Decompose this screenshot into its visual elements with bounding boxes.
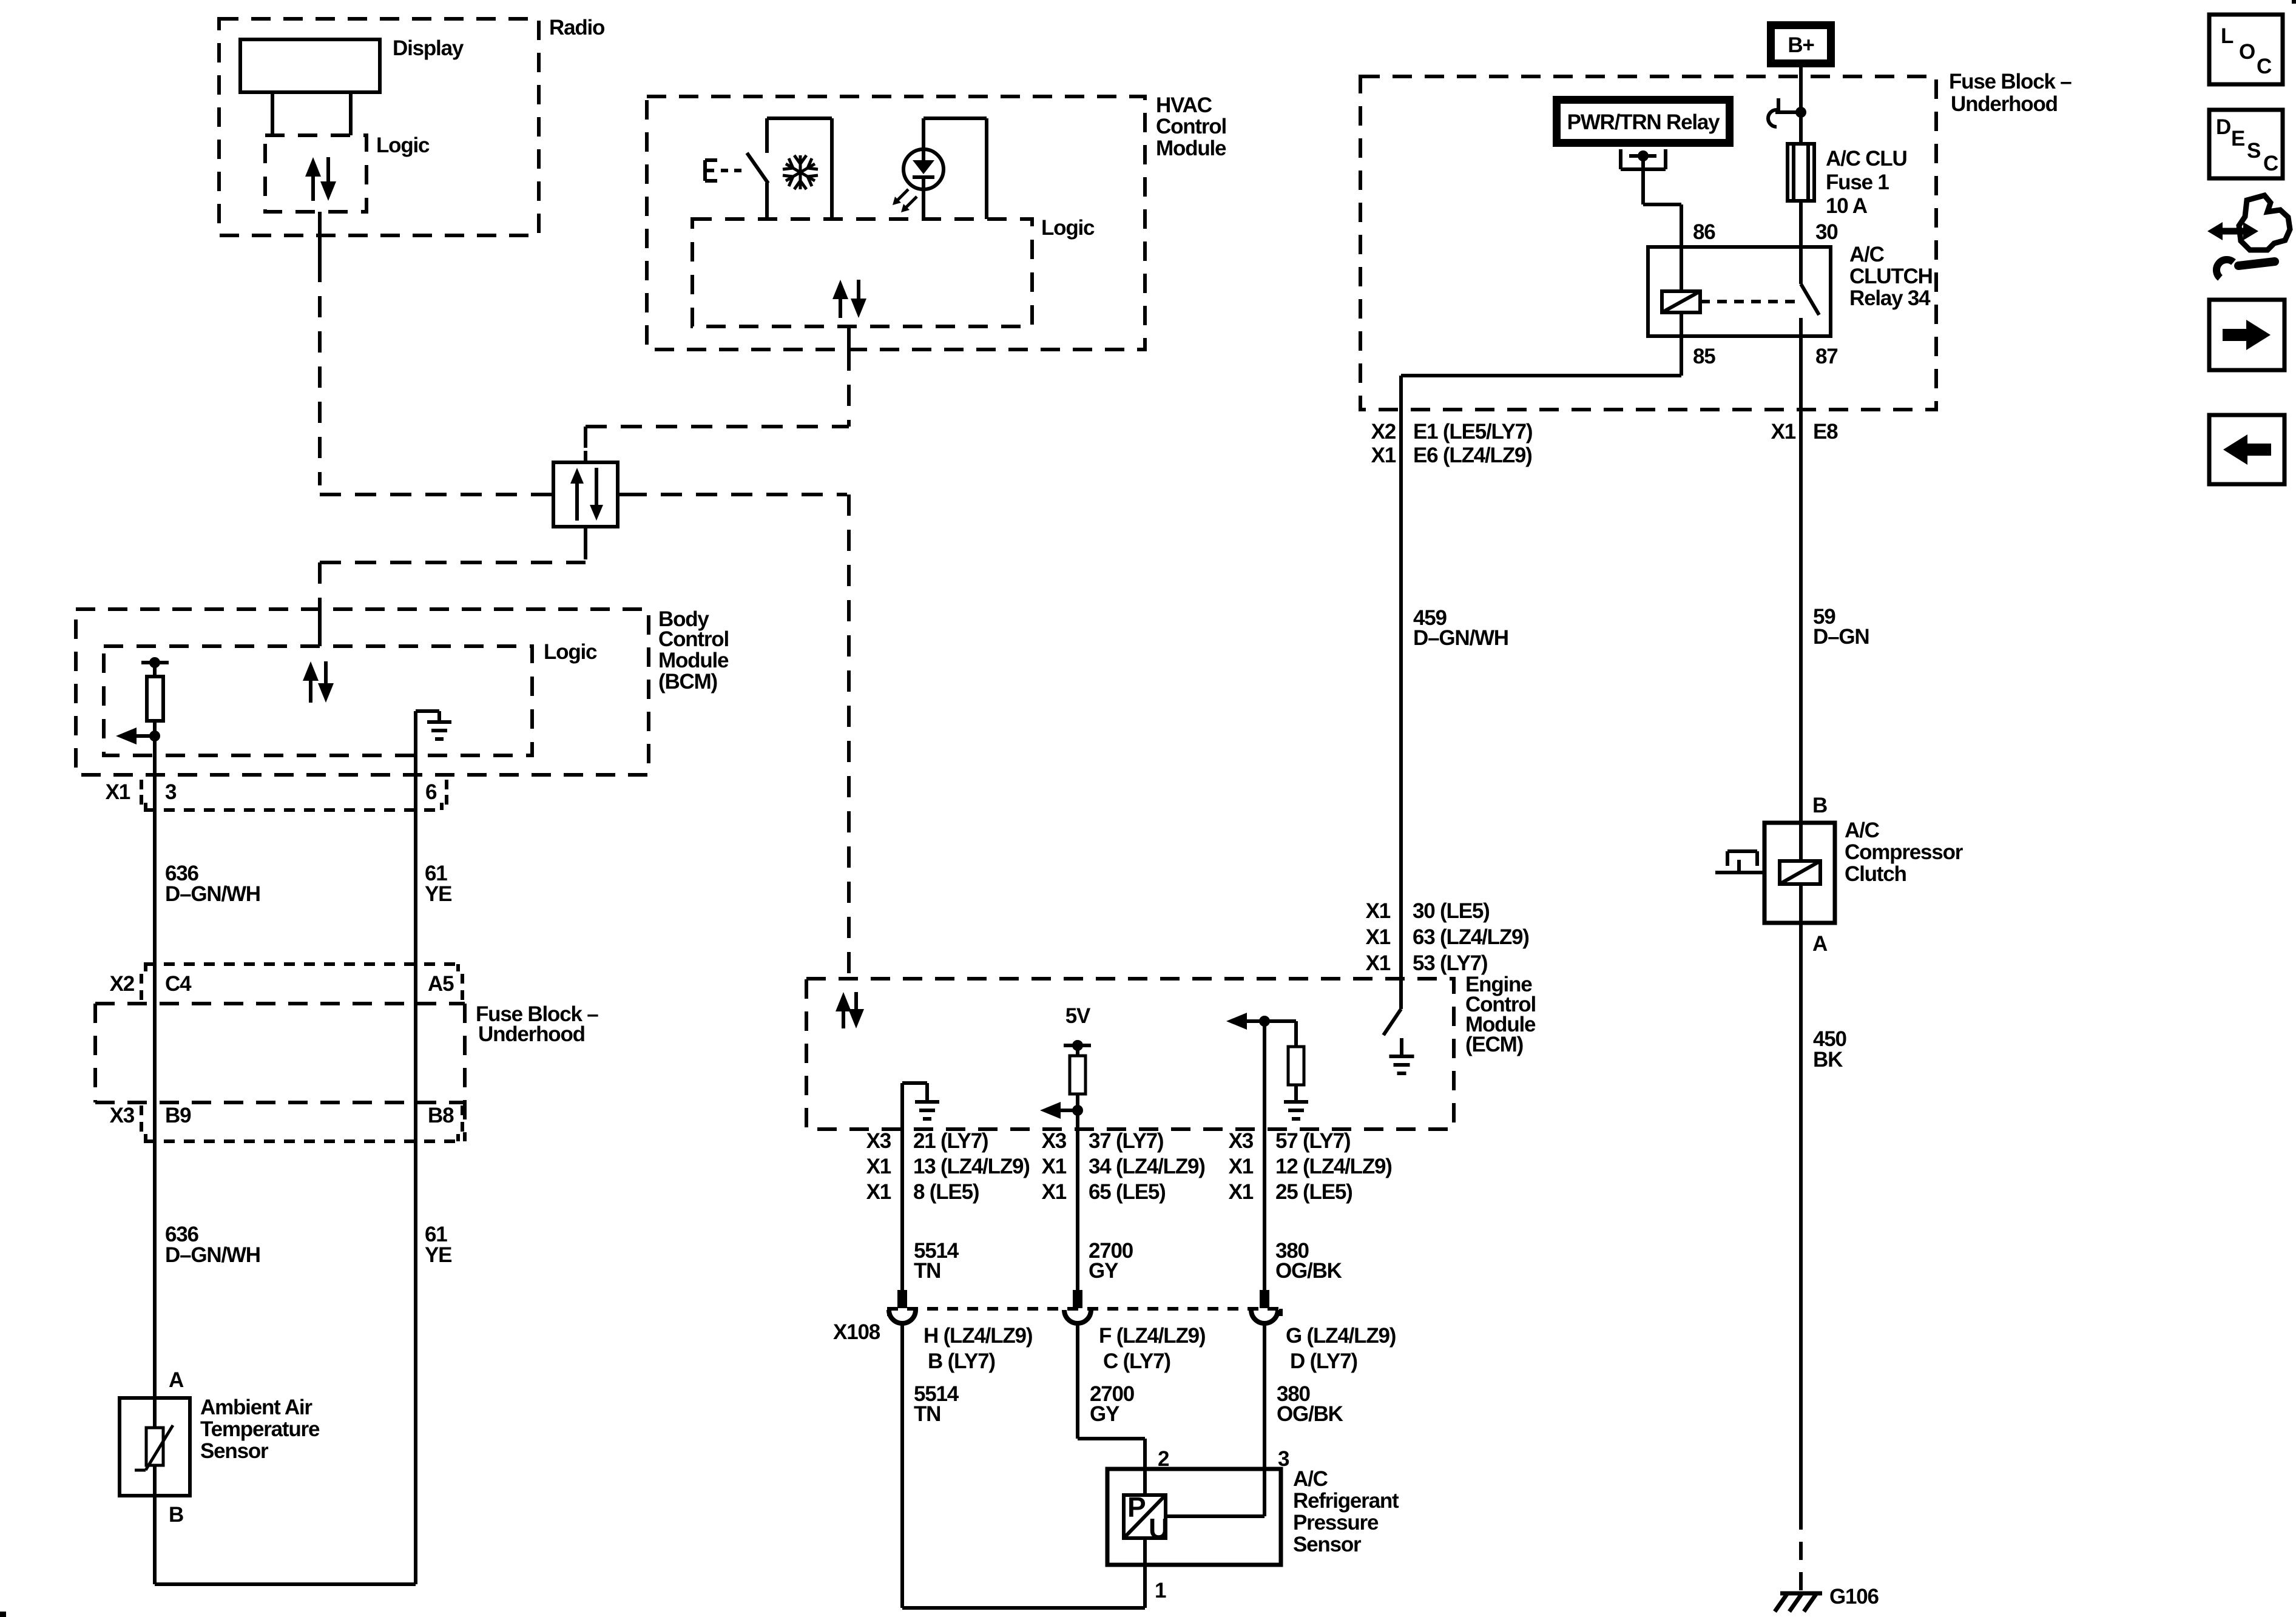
svg-text:U: U — [1149, 1513, 1168, 1544]
svg-text:Logic: Logic — [544, 640, 597, 664]
svg-text:CLUTCH: CLUTCH — [1849, 265, 1933, 288]
svg-text:25 (LE5): 25 (LE5) — [1275, 1180, 1352, 1204]
svg-text:Control: Control — [1156, 115, 1226, 138]
svg-text:C4: C4 — [165, 972, 192, 996]
svg-text:Radio: Radio — [549, 16, 605, 39]
svg-text:57 (LY7): 57 (LY7) — [1275, 1129, 1350, 1153]
svg-text:G106: G106 — [1829, 1585, 1879, 1609]
svg-text:F (LZ4/LZ9): F (LZ4/LZ9) — [1099, 1324, 1205, 1348]
svg-text:Module: Module — [1156, 137, 1226, 160]
svg-text:L: L — [2221, 24, 2234, 48]
svg-text:X1: X1 — [106, 780, 130, 804]
svg-text:B (LY7): B (LY7) — [928, 1349, 995, 1373]
svg-text:TN: TN — [914, 1259, 940, 1283]
svg-text:86: 86 — [1693, 220, 1715, 244]
svg-text:Display: Display — [393, 36, 464, 60]
svg-text:X2: X2 — [1371, 420, 1396, 444]
svg-text:X3: X3 — [110, 1104, 135, 1127]
svg-text:Refrigerant: Refrigerant — [1293, 1489, 1399, 1513]
svg-text:X3: X3 — [866, 1129, 891, 1153]
svg-text:3: 3 — [165, 780, 177, 804]
svg-text:13 (LZ4/LZ9): 13 (LZ4/LZ9) — [913, 1155, 1030, 1178]
svg-text:GY: GY — [1089, 1259, 1118, 1283]
svg-text:Ambient Air: Ambient Air — [200, 1396, 312, 1419]
svg-text:10 A: 10 A — [1826, 194, 1868, 218]
svg-text:A: A — [1812, 932, 1828, 956]
svg-text:34 (LZ4/LZ9): 34 (LZ4/LZ9) — [1089, 1155, 1205, 1178]
svg-text:63 (LZ4/LZ9): 63 (LZ4/LZ9) — [1413, 925, 1529, 949]
svg-text:A/C: A/C — [1849, 243, 1885, 266]
svg-text:(BCM): (BCM) — [658, 670, 717, 694]
svg-text:A/C: A/C — [1845, 819, 1880, 842]
svg-text:YE: YE — [425, 1243, 451, 1267]
svg-text:6: 6 — [425, 780, 437, 804]
svg-text:30 (LE5): 30 (LE5) — [1413, 899, 1490, 923]
svg-text:HVAC: HVAC — [1156, 93, 1212, 117]
svg-text:E: E — [2231, 127, 2244, 150]
svg-text:Sensor: Sensor — [1293, 1533, 1362, 1556]
svg-text:B9: B9 — [165, 1104, 191, 1127]
svg-text:H (LZ4/LZ9): H (LZ4/LZ9) — [923, 1324, 1032, 1348]
svg-text:Clutch: Clutch — [1845, 862, 1906, 886]
svg-text:X108: X108 — [833, 1320, 880, 1344]
svg-text:Underhood: Underhood — [1951, 92, 2058, 116]
svg-text:D–GN/WH: D–GN/WH — [165, 882, 260, 906]
svg-text:OG/BK: OG/BK — [1277, 1402, 1343, 1426]
svg-text:8 (LE5): 8 (LE5) — [913, 1180, 979, 1204]
svg-text:1: 1 — [1155, 1579, 1166, 1602]
svg-text:B: B — [1812, 794, 1827, 817]
svg-text:85: 85 — [1693, 345, 1715, 368]
svg-text:E6 (LZ4/LZ9): E6 (LZ4/LZ9) — [1413, 444, 1532, 467]
svg-text:12 (LZ4/LZ9): 12 (LZ4/LZ9) — [1275, 1155, 1392, 1178]
svg-text:X1: X1 — [1042, 1180, 1067, 1204]
svg-text:PWR/TRN Relay: PWR/TRN Relay — [1567, 110, 1721, 134]
svg-text:X3: X3 — [1229, 1129, 1254, 1153]
svg-text:Temperature: Temperature — [200, 1417, 320, 1441]
svg-text:D–GN/WH: D–GN/WH — [165, 1243, 260, 1267]
svg-text:65 (LE5): 65 (LE5) — [1089, 1180, 1166, 1204]
svg-text:B8: B8 — [428, 1104, 454, 1127]
svg-text:Module: Module — [658, 649, 729, 672]
svg-text:OG/BK: OG/BK — [1275, 1259, 1342, 1283]
svg-text:Logic: Logic — [1041, 216, 1095, 240]
svg-text:Relay 34: Relay 34 — [1849, 286, 1931, 310]
svg-text:X1: X1 — [1366, 925, 1391, 949]
svg-text:30: 30 — [1815, 220, 1838, 244]
svg-text:Pressure: Pressure — [1293, 1511, 1379, 1534]
svg-text:P: P — [1127, 1491, 1146, 1523]
svg-text:5V: 5V — [1065, 1004, 1091, 1028]
svg-text:YE: YE — [425, 882, 451, 906]
svg-text:Fuse Block –: Fuse Block – — [1949, 70, 2071, 93]
svg-text:BK: BK — [1813, 1048, 1843, 1072]
svg-text:B+: B+ — [1788, 33, 1814, 57]
svg-text:E1 (LE5/LY7): E1 (LE5/LY7) — [1413, 420, 1532, 444]
svg-text:X1: X1 — [866, 1155, 891, 1178]
svg-text:D–GN/WH: D–GN/WH — [1413, 626, 1508, 650]
svg-text:Compressor: Compressor — [1845, 840, 1963, 864]
svg-text:TN: TN — [914, 1402, 940, 1426]
svg-text:A/C CLU: A/C CLU — [1826, 147, 1907, 170]
svg-text:X2: X2 — [110, 972, 135, 996]
svg-text:87: 87 — [1815, 345, 1838, 368]
svg-text:X1: X1 — [1771, 420, 1796, 444]
svg-text:G (LZ4/LZ9): G (LZ4/LZ9) — [1286, 1324, 1396, 1348]
svg-text:21 (LY7): 21 (LY7) — [913, 1129, 988, 1153]
svg-text:Logic: Logic — [376, 133, 430, 157]
svg-text:A: A — [169, 1368, 184, 1392]
svg-text:Control: Control — [658, 627, 729, 651]
svg-text:A5: A5 — [428, 972, 454, 996]
svg-text:A/C: A/C — [1293, 1467, 1328, 1491]
svg-text:X1: X1 — [866, 1180, 891, 1204]
svg-text:Fuse 1: Fuse 1 — [1826, 170, 1889, 194]
svg-text:X1: X1 — [1371, 444, 1396, 467]
svg-text:D: D — [2216, 115, 2230, 139]
svg-text:X1: X1 — [1366, 899, 1391, 923]
svg-text:D (LY7): D (LY7) — [1290, 1349, 1357, 1373]
svg-text:Sensor: Sensor — [200, 1439, 269, 1463]
svg-text:E8: E8 — [1813, 420, 1838, 444]
svg-text:D–GN: D–GN — [1813, 625, 1869, 649]
svg-text:GY: GY — [1090, 1402, 1119, 1426]
svg-text:O: O — [2239, 40, 2255, 64]
svg-text:X1: X1 — [1366, 951, 1391, 975]
svg-text:X1: X1 — [1229, 1155, 1254, 1178]
svg-text:X1: X1 — [1229, 1180, 1254, 1204]
svg-text:C (LY7): C (LY7) — [1103, 1349, 1170, 1373]
svg-text:X1: X1 — [1042, 1155, 1067, 1178]
svg-text:C: C — [2263, 152, 2278, 175]
svg-text:X3: X3 — [1042, 1129, 1067, 1153]
svg-text:Underhood: Underhood — [478, 1022, 585, 1046]
svg-text:S: S — [2247, 139, 2260, 163]
svg-text:37 (LY7): 37 (LY7) — [1089, 1129, 1163, 1153]
svg-text:53 (LY7): 53 (LY7) — [1413, 951, 1487, 975]
svg-text:(ECM): (ECM) — [1465, 1033, 1523, 1056]
svg-text:C: C — [2257, 55, 2272, 78]
svg-text:B: B — [169, 1503, 183, 1527]
